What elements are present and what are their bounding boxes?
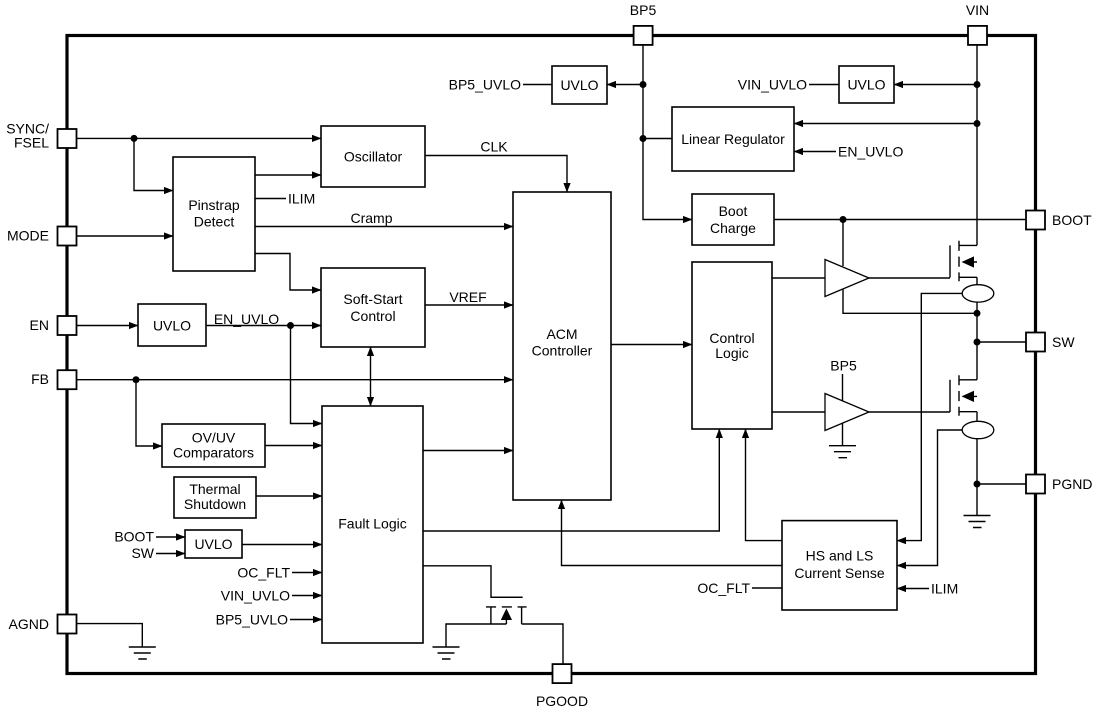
wire VREF from Soft-Start Control to ACM Controller	[425, 304, 513, 306]
wire AGND pin to ground	[76, 624, 142, 647]
wire Fault Logic to Control Logic	[423, 429, 719, 531]
wire Current Sense to Control Logic	[746, 429, 783, 541]
junction VIN rail at Linear Regulator	[974, 120, 981, 127]
block Control Logic	[692, 262, 772, 429]
wire BP5_UVLO label stub	[523, 84, 552, 86]
wire CLK from Oscillator to ACM Controller	[425, 156, 567, 193]
svg-text:Pinstrap: Pinstrap	[188, 197, 240, 213]
wire HS driver low rail to SW	[843, 290, 977, 314]
transistor LS FET	[950, 375, 977, 416]
IC boundary border	[67, 36, 1036, 674]
block HS and LS Current Sense	[782, 521, 897, 610]
block OV/UV Comparators	[162, 424, 265, 467]
wire Boot Charge to BOOT pin	[774, 219, 1026, 221]
svg-text:Current Sense: Current Sense	[794, 565, 884, 581]
ground AGND	[129, 647, 156, 659]
junction HS driver rail at SW leg	[974, 310, 981, 317]
svg-text:ILIM: ILIM	[288, 191, 315, 207]
wire Cramp from Pinstrap Detect to ACM Controller	[255, 226, 513, 228]
wire ILIM to Current Sense block	[897, 588, 929, 590]
junction FB node	[133, 376, 140, 383]
svg-text:BOOT: BOOT	[114, 529, 154, 545]
wire BP5 label to LS driver	[842, 374, 844, 401]
block ACM Controller	[513, 192, 611, 500]
pin SW	[1026, 333, 1075, 352]
wire LS sense tap to Current Sense block	[897, 430, 962, 566]
svg-text:BP5_UVLO: BP5_UVLO	[449, 77, 521, 93]
junction boot rail	[840, 216, 847, 223]
wire VIN_UVLO label stub	[809, 84, 839, 86]
svg-text:MODE: MODE	[7, 228, 49, 244]
wire boot rail to HS driver	[842, 220, 844, 267]
svg-text:Thermal: Thermal	[189, 481, 240, 497]
svg-text:CLK: CLK	[480, 139, 508, 155]
svg-text:SW: SW	[1052, 334, 1075, 350]
junction BP5 rail at UVLO	[640, 81, 647, 88]
wire PGOOD FET drain to PGOOD pin	[522, 624, 563, 665]
junction PGND node	[974, 481, 981, 488]
block UVLO (EN)	[138, 304, 206, 346]
wire BP5 rail to Linear Regulator	[643, 138, 672, 140]
svg-text:UVLO: UVLO	[560, 77, 598, 93]
current sense HS oval	[962, 285, 994, 302]
wire BOOT to UVLO	[156, 536, 185, 538]
block UVLO (VIN)	[839, 66, 894, 103]
wire SW to UVLO	[156, 553, 185, 555]
wire LS driver to ground	[842, 423, 844, 446]
wire LS driver to LS FET gate	[869, 411, 950, 413]
wire Thermal Shutdown to Fault Logic	[256, 495, 322, 497]
wire Fault Logic to PGOOD FET gate	[423, 566, 523, 598]
wire HS FET source to sense	[976, 277, 978, 284]
wire SW node to SW pin	[977, 341, 1026, 343]
svg-text:Soft-Start: Soft-Start	[343, 291, 402, 307]
pin PGND	[1026, 475, 1092, 494]
pin PGOOD	[536, 664, 588, 709]
ground PGOOD FET	[433, 647, 460, 659]
svg-text:Logic: Logic	[715, 345, 748, 361]
junction SYNC node	[131, 135, 138, 142]
wire VIN_UVLO to Fault Logic	[292, 595, 322, 597]
block Oscillator	[321, 126, 425, 187]
block Soft-Start Control	[321, 268, 425, 347]
svg-text:Oscillator: Oscillator	[344, 149, 403, 165]
svg-text:BP5: BP5	[630, 2, 657, 18]
wire double arrow Soft-Start Control to Fault Logic	[370, 347, 372, 406]
svg-text:UVLO: UVLO	[194, 536, 232, 552]
block Thermal Shutdown	[174, 477, 256, 518]
wire HS sense to SW node	[976, 302, 978, 342]
svg-text:Linear Regulator: Linear Regulator	[681, 131, 785, 147]
svg-text:Fault Logic: Fault Logic	[338, 516, 406, 532]
transistor HS FET	[950, 241, 977, 281]
wire Current Sense to ACM Controller	[562, 500, 783, 566]
wire MODE to Pinstrap Detect	[76, 235, 173, 237]
svg-text:BP5: BP5	[830, 358, 857, 374]
pin MODE	[7, 227, 77, 246]
wire OV/UV Comparators to Fault Logic	[265, 445, 322, 447]
ground PGND	[964, 516, 991, 528]
wire LS FET source to sense	[976, 412, 978, 422]
svg-text:VREF: VREF	[449, 289, 486, 305]
wire LS sense to PGND node	[976, 439, 978, 484]
wire EN to UVLO	[76, 325, 138, 327]
svg-text:FSEL: FSEL	[14, 135, 49, 151]
junction SW node	[974, 339, 981, 346]
wire SYNC node to Pinstrap Detect	[134, 138, 173, 190]
pin SYNC/FSEL	[6, 121, 76, 151]
svg-text:AGND: AGND	[9, 616, 49, 632]
wire EN_UVLO to Linear Regulator	[794, 151, 836, 153]
wire FB node to OV/UV Comparators	[136, 380, 162, 446]
block UVLO (BOOT/SW)	[185, 530, 242, 558]
pin AGND	[9, 615, 77, 634]
svg-text:ILIM: ILIM	[931, 581, 958, 597]
svg-text:VIN: VIN	[966, 2, 989, 18]
block Pinstrap Detect	[173, 157, 255, 271]
svg-text:EN_UVLO: EN_UVLO	[838, 144, 903, 160]
wire PGND node to PGND pin	[977, 483, 1026, 485]
svg-text:HS and LS: HS and LS	[806, 548, 874, 564]
block Fault Logic	[322, 406, 423, 643]
wire ACM Controller to Control Logic	[611, 344, 692, 346]
ground LS driver	[829, 446, 856, 458]
svg-text:BOOT: BOOT	[1052, 212, 1092, 228]
pin EN	[30, 316, 77, 335]
wire EN_UVLO node to Fault Logic	[291, 326, 323, 424]
wire VIN rail to Linear Regulator	[794, 123, 977, 125]
wire Pinstrap Detect to Soft-Start Control	[255, 254, 321, 291]
svg-text:ACM: ACM	[546, 326, 577, 342]
buffer HS driver	[825, 260, 869, 297]
svg-text:Shutdown: Shutdown	[184, 496, 246, 512]
wire BP5 rail to UVLO	[607, 84, 643, 86]
wire Control Logic to LS driver	[772, 411, 825, 413]
wire BP5_UVLO to Fault Logic	[290, 619, 322, 621]
wire PGND node to ground	[976, 484, 978, 516]
wire UVLO to Fault Logic	[242, 544, 322, 546]
junction EN_UVLO node	[287, 322, 294, 329]
svg-text:Control: Control	[709, 330, 754, 346]
transistor PGOOD FET	[486, 597, 527, 624]
wire HS driver to HS FET gate	[869, 277, 950, 279]
svg-text:OV/UV: OV/UV	[192, 430, 236, 446]
svg-text:EN: EN	[30, 317, 49, 333]
wire HS sense tap to Current Sense block	[897, 293, 962, 540]
pin BP5	[630, 2, 657, 45]
svg-text:UVLO: UVLO	[153, 318, 191, 334]
svg-text:Controller: Controller	[532, 343, 593, 359]
pin BOOT	[1026, 211, 1092, 230]
wire VIN rail to UVLO	[894, 84, 977, 86]
block Linear Regulator	[672, 107, 794, 171]
svg-text:Boot: Boot	[719, 203, 748, 219]
pin FB	[31, 370, 76, 389]
svg-text:UVLO: UVLO	[847, 77, 885, 93]
wire BP5 rail to Boot Charge	[643, 45, 692, 220]
svg-text:Control: Control	[350, 308, 395, 324]
svg-text:PGOOD: PGOOD	[536, 693, 588, 709]
svg-text:FB: FB	[31, 371, 49, 387]
wire Pinstrap Detect to Oscillator	[255, 174, 321, 176]
svg-text:PGND: PGND	[1052, 476, 1092, 492]
wire SW node to LS FET drain	[976, 342, 978, 380]
junction VIN rail at UVLO	[974, 81, 981, 88]
block UVLO (BP5)	[552, 66, 607, 104]
wire EN_UVLO from UVLO to Soft-Start Control	[206, 325, 321, 327]
svg-text:Detect: Detect	[194, 214, 235, 230]
wire ILIM stub from Pinstrap Detect	[255, 198, 286, 200]
current sense LS oval	[962, 421, 994, 438]
wire FB to ACM Controller	[76, 379, 513, 381]
buffer LS driver	[825, 394, 869, 431]
svg-text:Charge: Charge	[710, 220, 756, 236]
wire VIN rail	[976, 45, 978, 246]
wire OC_FLT to Fault Logic	[292, 572, 322, 574]
svg-text:VIN_UVLO: VIN_UVLO	[221, 588, 290, 604]
pin VIN	[966, 2, 989, 45]
svg-text:Comparators: Comparators	[173, 445, 254, 461]
svg-text:Cramp: Cramp	[350, 210, 392, 226]
junction BP5 rail at Linear Regulator	[640, 135, 647, 142]
wire OC_FLT stub to Current Sense block	[752, 587, 782, 589]
wire Control Logic to HS driver	[772, 277, 825, 279]
wire SYNC/FSEL to Oscillator	[76, 137, 321, 139]
svg-text:SW: SW	[131, 545, 154, 561]
svg-text:OC_FLT: OC_FLT	[697, 580, 750, 596]
svg-text:EN_UVLO: EN_UVLO	[214, 311, 279, 327]
svg-text:VIN_UVLO: VIN_UVLO	[738, 77, 807, 93]
svg-text:OC_FLT: OC_FLT	[237, 565, 290, 581]
wire Fault Logic to ACM Controller	[423, 450, 513, 452]
svg-text:BP5_UVLO: BP5_UVLO	[216, 612, 288, 628]
block Boot Charge	[692, 194, 774, 245]
wire PGOOD FET source rail to ground	[446, 624, 506, 647]
